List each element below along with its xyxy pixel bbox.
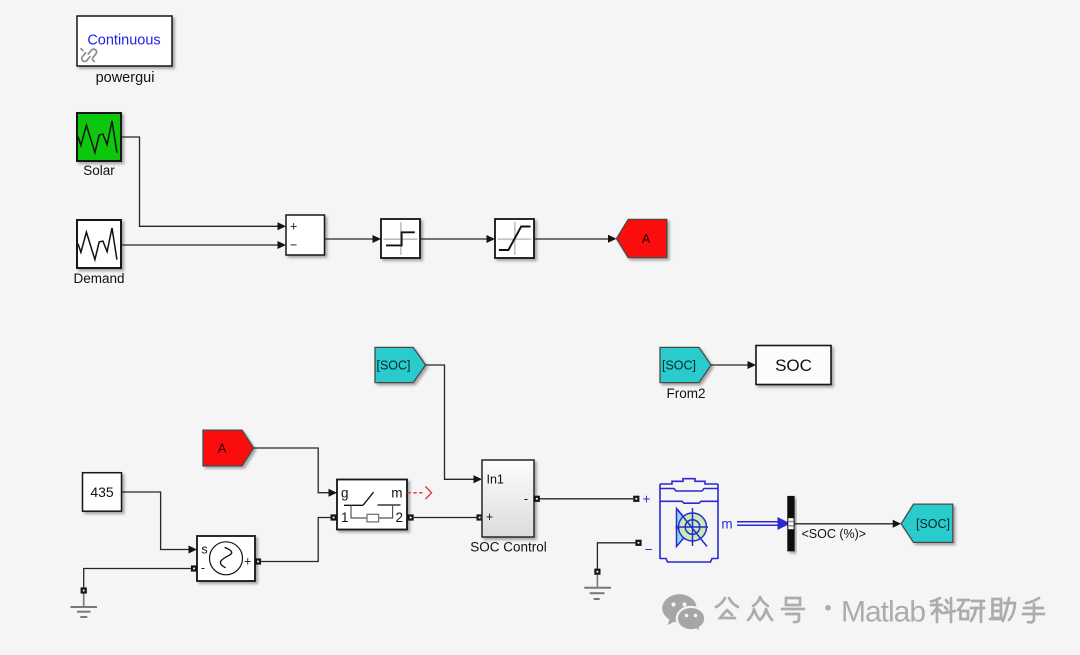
from tag From2 (660, 347, 711, 382)
source block Demand (77, 220, 121, 268)
wire 435 to AC source s (121, 492, 189, 550)
char gong (716, 598, 738, 618)
svg-text:Continuous: Continuous (87, 33, 160, 49)
saturation block Saturation (495, 219, 534, 258)
ground Ground2 (584, 569, 611, 599)
wire Breaker 2 to SOC Control plus (414, 517, 477, 519)
svg-text:SOC: SOC (775, 356, 812, 375)
bus selector bar (787, 496, 794, 551)
from tag SOC (top) (375, 347, 426, 382)
char yan (958, 600, 984, 622)
AC source block (197, 536, 255, 581)
port square AC plus (255, 558, 261, 564)
port square Breaker 1 (331, 514, 337, 520)
wire AC minus to Ground1 (84, 569, 191, 588)
svg-text:Demand: Demand (73, 271, 124, 286)
wire From2 to SOC display (711, 364, 749, 366)
svg-text:+: + (486, 510, 493, 524)
svg-text:m: m (721, 517, 732, 532)
svg-text:1: 1 (341, 510, 349, 525)
watermark dot and Matlab (825, 605, 831, 611)
wire Solar to Sum plus input (121, 137, 278, 226)
wire selector to Goto SOC (795, 523, 895, 525)
svg-text:+: + (290, 220, 297, 234)
svg-text:powergui: powergui (96, 70, 155, 86)
svg-text:435: 435 (90, 484, 114, 500)
port square Battery plus (633, 496, 639, 502)
char shou (1023, 598, 1044, 622)
svg-text:In1: In1 (487, 473, 504, 487)
svg-text:2: 2 (395, 510, 403, 525)
watermark text (716, 597, 804, 622)
svg-text:-: - (201, 561, 205, 575)
ground Ground1 (71, 587, 98, 617)
unconnected breaker m output red dashed arrow (408, 487, 432, 500)
svg-text:m: m (391, 486, 402, 501)
watermark wechat icon (662, 594, 705, 632)
wire Saturation to Goto A (534, 238, 610, 240)
wire Relay to Saturation (420, 238, 488, 240)
constant block 435 (83, 473, 122, 512)
svg-text:s: s (201, 543, 207, 557)
char zhu (990, 598, 1015, 621)
wire Battery minus to Ground2 (597, 543, 635, 569)
port square SOC Control plus (477, 514, 483, 520)
port square SOC Control minus output (534, 496, 540, 502)
svg-text:[SOC]: [SOC] (916, 517, 950, 531)
svg-text:Solar: Solar (83, 163, 115, 178)
subsystem block SOC Control (482, 460, 534, 537)
svg-text:-: - (524, 492, 528, 506)
svg-text:g: g (341, 486, 349, 501)
svg-text:−: − (645, 542, 653, 557)
powergui U_powergui (77, 16, 172, 66)
svg-text:<SOC (%)>: <SOC (%)> (802, 527, 867, 541)
svg-text:SOC Control: SOC Control (470, 540, 547, 555)
source block Solar (77, 113, 121, 161)
port square Battery minus (635, 540, 641, 546)
svg-text:+: + (643, 491, 651, 506)
svg-text:+: + (244, 555, 251, 569)
goto tag A (617, 219, 667, 257)
svg-text:A: A (642, 232, 651, 246)
svg-text:A: A (218, 441, 227, 455)
battery logo (676, 508, 709, 547)
bus signal battery m to selector (737, 522, 779, 525)
wire Demand to Sum minus input (121, 244, 278, 246)
char zhong (748, 597, 772, 620)
display block SOC (756, 346, 831, 385)
svg-text:−: − (290, 238, 297, 252)
battery block (660, 479, 718, 562)
svg-text:[SOC]: [SOC] (662, 358, 696, 372)
char ke (931, 598, 955, 622)
svg-text:Matlab: Matlab (841, 596, 925, 629)
relay block Relay (381, 219, 420, 258)
wire Sum to Relay (325, 238, 375, 240)
char hao (782, 598, 804, 622)
wire SOC Control minus to Battery plus (540, 498, 633, 500)
port square AC minus (191, 565, 197, 571)
breaker block (337, 480, 407, 530)
sum block Sum (286, 215, 325, 255)
from tag A (lower left) (203, 430, 254, 466)
goto tag SOC (901, 504, 953, 542)
wire From A to Breaker g (254, 448, 329, 493)
broken link icon (81, 49, 97, 62)
svg-text:From2: From2 (666, 386, 705, 401)
port square Breaker 2 (408, 514, 414, 520)
svg-text:[SOC]: [SOC] (376, 358, 410, 372)
wire From SOC to SOC Control In1 (426, 365, 474, 479)
wire AC plus to Breaker port 1 (261, 518, 330, 562)
